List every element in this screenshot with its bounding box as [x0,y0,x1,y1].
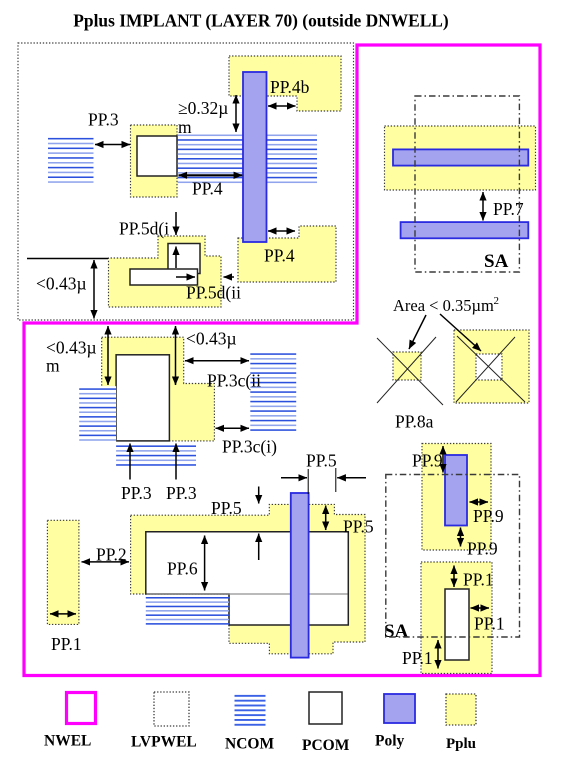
svg-text:≥0.32µ: ≥0.32µ [178,98,228,118]
svg-text:Area < 0.35µm: Area < 0.35µm [393,296,494,315]
svg-text:NWEL: NWEL [44,733,91,750]
svg-text:SA: SA [484,251,509,272]
svg-text:NCOM: NCOM [225,736,274,753]
svg-text:PP.3c(ii: PP.3c(ii [207,371,261,391]
svg-text:PP.1: PP.1 [51,634,82,654]
svg-text:PP.1: PP.1 [402,648,433,668]
svg-text:PP.4b: PP.4b [270,77,310,97]
svg-text:PCOM: PCOM [302,737,350,754]
svg-text:PP.1: PP.1 [463,570,494,590]
svg-text:PP.6: PP.6 [167,559,198,579]
svg-text:PP.5: PP.5 [343,517,374,537]
svg-text:PP.4: PP.4 [264,246,295,266]
svg-text:PP.5: PP.5 [306,451,337,471]
svg-text:PP.2: PP.2 [96,545,127,565]
svg-text:PP.4: PP.4 [192,179,223,199]
svg-text:PP.5d(i: PP.5d(i [119,219,169,239]
svg-text:PP.9: PP.9 [412,451,443,471]
svg-text:SA: SA [384,621,409,642]
svg-text:PP.1: PP.1 [474,614,505,634]
svg-text:PP.9: PP.9 [473,506,504,526]
svg-text:Poly: Poly [375,733,405,750]
svg-text:Pplus IMPLANT (LAYER 70) (outs: Pplus IMPLANT (LAYER 70) (outside DNWELL… [73,11,449,31]
svg-text:<0.43µ: <0.43µ [46,338,97,358]
svg-text:PP.3c(i): PP.3c(i) [222,437,277,457]
svg-text:PP.3: PP.3 [88,110,119,130]
svg-text:PP.8a: PP.8a [395,412,434,432]
svg-text:PP.5d(ii: PP.5d(ii [186,283,241,303]
svg-text:PP.9: PP.9 [467,539,498,559]
svg-text:m: m [178,117,192,137]
svg-text:2: 2 [494,295,500,307]
svg-text:LVPWEL: LVPWEL [131,734,197,751]
svg-text:m: m [46,356,60,376]
svg-text:PP.5: PP.5 [211,498,242,518]
svg-text:Pplu: Pplu [446,736,476,752]
svg-text:<0.43µ: <0.43µ [186,329,237,349]
svg-text:PP.3: PP.3 [166,483,197,503]
svg-text:<0.43µ: <0.43µ [36,274,87,294]
svg-text:PP.3: PP.3 [121,483,152,503]
